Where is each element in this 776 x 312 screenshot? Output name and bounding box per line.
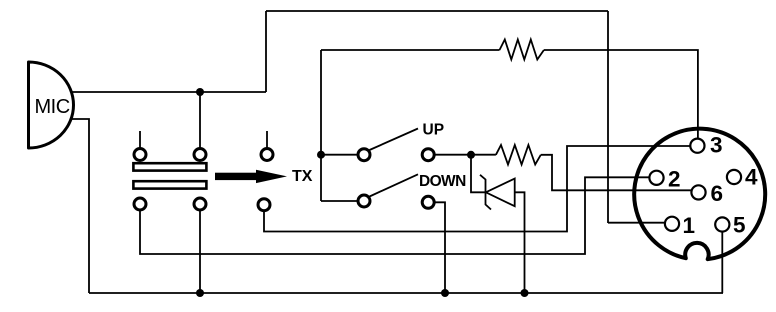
pin 2 circle bbox=[649, 171, 663, 185]
svg-text:UP: UP bbox=[423, 122, 445, 139]
wire to UP pole bbox=[321, 154, 358, 156]
wire to DOWN pole bbox=[321, 200, 358, 202]
junction node bottom rail / zener bbox=[521, 289, 529, 297]
terminal transformer top-left bbox=[134, 149, 146, 161]
svg-text:2: 2 bbox=[668, 167, 681, 192]
transformer T1 bar upper bbox=[133, 163, 206, 170]
wire vertical down right bbox=[607, 11, 609, 223]
pin 6 circle bbox=[691, 185, 705, 199]
svg-text:4: 4 bbox=[745, 165, 758, 190]
switch UP lever bbox=[370, 129, 419, 151]
wire pin 5 drop bbox=[721, 229, 723, 293]
arrow TX shaft bbox=[215, 173, 258, 180]
wire transformer bottom left to pin 2 bbox=[140, 177, 650, 254]
terminal transformer bottom-right bbox=[194, 198, 206, 210]
wire DOWN contact to bottom rail bbox=[435, 202, 445, 293]
svg-text:5: 5 bbox=[733, 212, 746, 237]
resistor R1 top bbox=[500, 40, 544, 60]
terminal transformer top-right bbox=[194, 149, 206, 161]
wire into pin 1 bbox=[608, 222, 666, 224]
switch DOWN fixed contact bbox=[422, 196, 434, 208]
junction node bottom rail / transformer bbox=[196, 289, 204, 297]
junction node UP contact / zener bbox=[467, 151, 475, 159]
svg-text:MIC: MIC bbox=[35, 96, 70, 118]
switch UP fixed contact bbox=[422, 149, 434, 161]
wire switch common vertical bbox=[320, 50, 322, 201]
resistor R2 bbox=[496, 145, 541, 165]
wire TX contact to pin 3 bbox=[264, 146, 691, 232]
zener diode D1 triangle bbox=[486, 179, 515, 207]
terminal transformer bottom-left bbox=[134, 198, 146, 210]
stub transformer top left bbox=[139, 131, 141, 148]
wire zener anode to bottom rail bbox=[515, 192, 525, 293]
terminal TX bottom bbox=[258, 199, 270, 211]
svg-text:TX: TX bbox=[292, 168, 313, 185]
svg-text:3: 3 bbox=[710, 133, 723, 158]
switch UP pole contact bbox=[358, 149, 370, 161]
wire node to transformer top right bbox=[199, 92, 201, 148]
wire top resistor left bbox=[321, 49, 500, 51]
terminal TX top bbox=[261, 149, 273, 161]
wire MIC output top bbox=[71, 91, 266, 93]
transformer T1 bar lower bbox=[133, 181, 206, 188]
zener diode D1 cathode bar bbox=[480, 175, 491, 210]
wire top resistor right to pin 3 bbox=[544, 50, 698, 139]
wire vertical up to top rail bbox=[265, 11, 267, 92]
pin 5 circle bbox=[715, 217, 729, 231]
junction node switch common bbox=[317, 151, 325, 159]
wire UP contact to resistor bbox=[435, 154, 496, 156]
wire zener branch bbox=[471, 155, 486, 193]
svg-text:1: 1 bbox=[683, 213, 696, 238]
svg-text:6: 6 bbox=[711, 181, 724, 206]
switch DOWN lever bbox=[370, 174, 419, 196]
arrow TX head bbox=[256, 170, 287, 183]
wire transformer bottom right to bottom rail bbox=[199, 210, 201, 293]
svg-text:DOWN: DOWN bbox=[419, 173, 466, 190]
switch DOWN pole contact bbox=[358, 195, 370, 207]
junction node bottom rail / DOWN bbox=[441, 289, 449, 297]
pin 4 circle bbox=[727, 170, 741, 184]
wire bottom rail bbox=[89, 292, 723, 294]
wire resistor R2 to pin 6 bbox=[541, 155, 692, 191]
wire MIC output bottom bbox=[66, 119, 89, 293]
connector J1 DIN body circle with notch bbox=[634, 129, 765, 260]
wire top rail bbox=[266, 10, 608, 12]
junction node MIC/transformer bbox=[196, 88, 204, 96]
microphone MIC body bbox=[29, 62, 74, 148]
pin 3 circle bbox=[690, 139, 704, 153]
stub TX top contact bbox=[266, 131, 268, 148]
pin 1 circle bbox=[665, 217, 679, 231]
